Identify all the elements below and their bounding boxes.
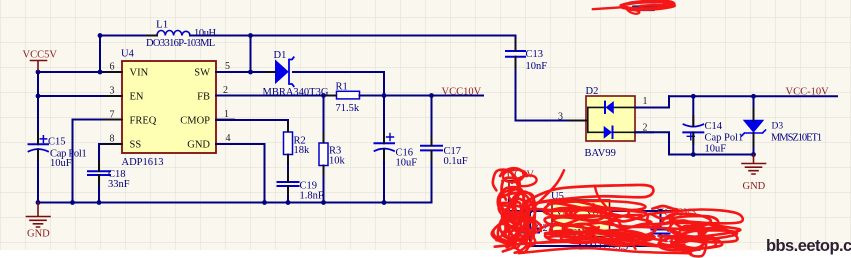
wire FB row: [216, 95, 336, 97]
capacitor C21: [521, 211, 580, 246]
wire vertical from top rail to VIN: [99, 36, 101, 73]
svg-text:1: 1: [643, 96, 648, 107]
svg-text:D1: D1: [274, 50, 287, 61]
capacitor C17: [421, 96, 468, 203]
wire lower gnd: [580, 237, 661, 247]
svg-text:1.8nF: 1.8nF: [300, 191, 324, 202]
capacitor C22: [652, 211, 681, 246]
svg-text:C14: C14: [705, 121, 723, 132]
svg-text:8: 8: [110, 134, 115, 145]
junction SW x250: [248, 70, 253, 75]
junction top rail x250: [248, 33, 253, 38]
svg-text:GND: GND: [27, 229, 50, 240]
junction EN x38: [36, 94, 41, 99]
svg-text:FREQ: FREQ: [130, 116, 157, 127]
red scribble annotation bottom: [492, 168, 743, 256]
wire bottom negative rail: [669, 154, 754, 156]
junction VIN x38: [36, 70, 41, 75]
svg-text:R1: R1: [336, 82, 348, 93]
wire top rail left segment: [100, 35, 157, 37]
resistor R2: [284, 120, 311, 181]
wire FREQ vertical to ground rail: [72, 120, 74, 203]
svg-text:10uF: 10uF: [50, 158, 72, 169]
junction rail x72: [70, 200, 75, 205]
wire ground rail: [38, 202, 432, 204]
svg-text:C15: C15: [48, 137, 66, 148]
capacitor C15: [29, 72, 87, 203]
wire GND pin to rail: [216, 144, 265, 203]
svg-text:VCC-10V: VCC-10V: [786, 87, 830, 98]
svg-text:VCC10V: VCC10V: [442, 87, 482, 98]
junction bottom rail x693: [691, 152, 696, 157]
junction x384: [382, 93, 387, 98]
junction x431: [429, 93, 434, 98]
junction rail x264: [262, 200, 267, 205]
junction at top rail x100: [98, 33, 103, 38]
svg-text:6: 6: [110, 62, 115, 73]
svg-text:7: 7: [110, 110, 115, 121]
capacitor C19: [278, 172, 324, 203]
wire D1 cathode to VCC10V node: [293, 72, 384, 96]
svg-text:L1: L1: [156, 19, 168, 31]
svg-text:33nF: 33nF: [108, 179, 130, 190]
capacitor C16: [375, 96, 418, 203]
svg-text:Cap Pol1: Cap Pol1: [705, 133, 744, 144]
svg-text:71.5k: 71.5k: [336, 103, 360, 114]
junction FB x324: [321, 93, 326, 98]
junction rail x323: [321, 200, 326, 205]
wire C13 to D2 pin 3: [516, 120, 587, 122]
svg-text:10k: 10k: [329, 156, 346, 167]
svg-text:10uF: 10uF: [396, 158, 418, 169]
svg-text:DO3316P-103ML: DO3316P-103ML: [146, 38, 215, 49]
junction rail x288: [286, 200, 291, 205]
svg-text:5: 5: [225, 61, 230, 72]
svg-text:SS: SS: [130, 140, 142, 151]
wire D2 pin2 down: [635, 132, 669, 154]
svg-text:1: 1: [224, 109, 229, 120]
svg-text:bbs.eetop.cn: bbs.eetop.cn: [766, 237, 851, 255]
resistor R1: [327, 82, 369, 115]
junction x660: [658, 209, 663, 214]
junction rail x38: [36, 200, 41, 205]
diode D3 MMSZ10ET1 zener: [742, 96, 822, 154]
op-amp U4 ADP1613: [104, 49, 234, 169]
wire R1 to VCC10V: [360, 95, 484, 97]
svg-text:0.1uF: 0.1uF: [444, 156, 468, 167]
junction x530: [528, 209, 533, 214]
wire VCC5V to U5: [509, 193, 552, 211]
svg-text:18k: 18k: [294, 145, 311, 156]
capacitor C13: [506, 36, 547, 121]
svg-text:EN: EN: [130, 92, 144, 103]
junction bottom rail x753: [751, 152, 756, 157]
diode D1 MBRA340T3G: [263, 50, 329, 98]
wire D2 pin1 to VCC-10V rail: [635, 96, 669, 107]
diode D2 BAV99: [568, 86, 653, 159]
junction VCC-10V x753: [751, 94, 756, 99]
wire U5 out to VCC3V3: [610, 210, 681, 212]
svg-text:4: 4: [226, 133, 231, 144]
svg-text:C13: C13: [526, 49, 544, 60]
svg-text:U4: U4: [121, 49, 135, 60]
svg-text:BAV99: BAV99: [585, 148, 616, 159]
svg-text:3: 3: [558, 112, 563, 123]
svg-text:D2: D2: [586, 86, 599, 97]
wire CMOP row: [216, 119, 288, 121]
wire FREQ row: [73, 119, 123, 121]
wire VCC-10V rail: [669, 95, 837, 97]
svg-text:CMOP: CMOP: [180, 116, 210, 127]
svg-text:3: 3: [110, 86, 115, 97]
svg-text:10uF: 10uF: [705, 144, 727, 155]
resistor R3: [319, 96, 346, 203]
svg-text:2: 2: [223, 85, 228, 96]
svg-text:VCC5V: VCC5V: [23, 50, 58, 61]
svg-text:GND: GND: [743, 181, 766, 192]
wire vertical top rail to SW: [250, 36, 252, 73]
regulator U5: [551, 191, 610, 239]
svg-text:10nF: 10nF: [526, 61, 548, 72]
junction rail x384: [382, 200, 387, 205]
capacitor C14: [683, 96, 743, 154]
junction rail x99: [97, 200, 102, 205]
ground symbol right: [742, 155, 766, 193]
wire SW row: [216, 71, 275, 73]
wire top rail right segment: [190, 35, 516, 37]
junction VIN x100: [98, 70, 103, 75]
svg-text:FB: FB: [197, 92, 210, 103]
power port VCC5V lower: [500, 170, 535, 194]
red scribble annotation top: [593, 1, 675, 14]
inductor L1: [146, 19, 217, 50]
capacitor C18: [88, 144, 130, 203]
svg-text:GND: GND: [187, 140, 210, 151]
svg-text:MMSZ10ET1: MMSZ10ET1: [771, 133, 822, 144]
wire EN row: [38, 95, 122, 97]
power port VCC5V: [23, 50, 58, 73]
svg-text:SW: SW: [194, 68, 210, 79]
wire SS row: [99, 143, 122, 145]
svg-text:ADP1613: ADP1613: [122, 157, 164, 168]
junction VCC-10V x693: [691, 94, 696, 99]
ground symbol left: [27, 203, 51, 240]
wire VIN row: [38, 71, 122, 73]
svg-text:D3: D3: [772, 122, 784, 132]
svg-text:VIN: VIN: [130, 68, 149, 79]
